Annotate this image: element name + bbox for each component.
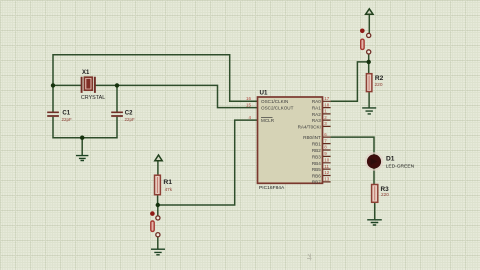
svg-text:22pF: 22pF: [62, 117, 73, 122]
svg-text:47k: 47k: [165, 187, 173, 192]
svg-text:RA1: RA1: [312, 106, 321, 111]
svg-text:RB6: RB6: [312, 174, 321, 179]
svg-text:RA0: RA0: [312, 99, 321, 104]
svg-text:16: 16: [246, 96, 252, 101]
svg-text:220: 220: [375, 82, 383, 88]
svg-text:RB4: RB4: [312, 161, 321, 166]
svg-text:RA3: RA3: [312, 118, 321, 123]
svg-text:13: 13: [324, 177, 330, 182]
svg-text:OSC2/CLKOUT: OSC2/CLKOUT: [261, 106, 294, 111]
svg-text:RA2: RA2: [312, 112, 321, 117]
svg-text:RB7: RB7: [312, 179, 321, 184]
svg-text:RB3: RB3: [312, 154, 321, 159]
svg-text:11: 11: [324, 164, 329, 169]
svg-text:MCLR: MCLR: [261, 118, 275, 123]
svg-text:R2: R2: [375, 75, 384, 82]
svg-text:CRYSTAL: CRYSTAL: [81, 95, 105, 101]
svg-text:12: 12: [324, 170, 330, 175]
svg-text:C1: C1: [62, 110, 70, 116]
svg-text:C2: C2: [125, 110, 133, 116]
svg-text:18: 18: [324, 102, 330, 107]
svg-text:U1: U1: [260, 89, 268, 96]
svg-text:15: 15: [246, 102, 252, 107]
svg-text:10: 10: [324, 158, 330, 163]
svg-text:RB5: RB5: [312, 167, 321, 172]
svg-text:X1: X1: [82, 70, 90, 76]
svg-text:RB2: RB2: [312, 148, 321, 153]
svg-text:OSC1/CLKIN: OSC1/CLKIN: [261, 99, 288, 104]
svg-text:PIC16F84A: PIC16F84A: [259, 185, 285, 191]
svg-text:D1: D1: [386, 156, 395, 163]
svg-text:LED-GREEN: LED-GREEN: [386, 163, 415, 169]
svg-text:RB1: RB1: [312, 142, 321, 147]
svg-text:17: 17: [324, 96, 330, 101]
svg-text:RA4/T0CKI: RA4/T0CKI: [298, 124, 321, 129]
svg-text:22pF: 22pF: [125, 117, 136, 122]
svg-text:RB0/INT: RB0/INT: [303, 135, 321, 140]
svg-text:R1: R1: [163, 179, 172, 186]
svg-text:220: 220: [381, 192, 389, 197]
